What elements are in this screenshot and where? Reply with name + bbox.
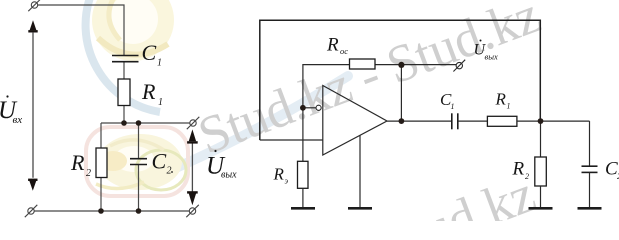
svg-text:R: R <box>326 35 339 56</box>
svg-text:1: 1 <box>451 102 455 111</box>
svg-text:R: R <box>70 150 85 175</box>
svg-text:1: 1 <box>158 97 163 108</box>
svg-text:R: R <box>141 79 156 104</box>
svg-text:вых: вых <box>221 170 237 181</box>
svg-text:1: 1 <box>507 102 511 111</box>
svg-text:C: C <box>152 149 167 174</box>
svg-text:R: R <box>273 165 285 184</box>
svg-text:э: э <box>285 177 289 186</box>
svg-text:Stud.kz - Stud.kz: Stud.kz - Stud.kz <box>191 0 548 166</box>
svg-text:1: 1 <box>157 58 162 69</box>
svg-text:2: 2 <box>167 166 172 177</box>
svg-text:C: C <box>142 40 157 65</box>
svg-text:2: 2 <box>86 168 91 179</box>
svg-text:вх: вх <box>13 114 23 126</box>
svg-text:2: 2 <box>525 172 529 181</box>
svg-text:ос: ос <box>340 46 348 56</box>
svg-text:R: R <box>495 90 507 109</box>
svg-text:R: R <box>512 159 525 180</box>
svg-text:вых: вых <box>485 52 498 62</box>
